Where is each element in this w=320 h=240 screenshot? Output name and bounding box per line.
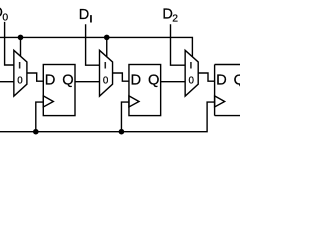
- label D1: [79, 7, 92, 23]
- svg-text:0: 0: [189, 75, 195, 86]
- svg-text:0: 0: [2, 12, 8, 23]
- wire: FF2 Q output to mux M3 "0" input: [161, 81, 185, 83]
- label: mux M2 input 1: [105, 62, 107, 69]
- wire: clock tap to FF1: [36, 102, 44, 132]
- wire: select drop to mux M1: [20, 37, 22, 56]
- wire: D1 input drop to mux M2 "1" input: [86, 24, 100, 65]
- wire: serial input Sin to mux M1 "0" input: [0, 81, 14, 83]
- node: select junction at M2: [104, 35, 110, 41]
- flip-flop FF1 clock triangle: [43, 96, 53, 107]
- svg-text:D: D: [45, 72, 56, 88]
- flip-flop FF2 box: [129, 65, 161, 116]
- wire: D0 input drop to mux M1 "1" input: [5, 22, 14, 65]
- svg-text:2: 2: [172, 14, 178, 25]
- wire: mux M1 output to FF1 D input: [27, 73, 43, 81]
- svg-text:Q: Q: [148, 72, 159, 88]
- wire: clock tap to FF2: [121, 102, 129, 132]
- wire: FF1 Q output to mux M2 "0" input: [75, 81, 99, 83]
- node: clock junction at FF1: [33, 129, 39, 135]
- svg-text:Q: Q: [234, 72, 240, 88]
- flip-flop FF3 box: [215, 64, 240, 66]
- label: mux M1 input 1: [19, 62, 21, 69]
- multiplexer M2: [100, 50, 113, 96]
- svg-text:D: D: [216, 72, 227, 88]
- flip-flop FF2 clock triangle: [129, 96, 139, 107]
- flip-flop FF1 box: [43, 65, 75, 116]
- label D2: [162, 6, 178, 24]
- wire: clock rail (bottom): [0, 102, 215, 132]
- svg-text:0: 0: [103, 75, 109, 86]
- wire: mux M3 output to FF3 D input: [198, 73, 214, 81]
- svg-text:Q: Q: [62, 72, 73, 88]
- svg-text:D: D: [130, 72, 141, 88]
- flip-flop FF3 clock triangle: [215, 96, 225, 107]
- node: select junction at M1: [18, 35, 24, 41]
- wire: Load select rail (top): [0, 37, 192, 56]
- multiplexer M3: [185, 50, 198, 96]
- label D0: [0, 5, 8, 23]
- wire: select drop to mux M2: [106, 37, 108, 56]
- multiplexer M1: [14, 50, 27, 96]
- label: mux M3 input 1: [190, 62, 192, 69]
- wire: mux M2 output to FF2 D input: [113, 73, 129, 81]
- svg-text:D: D: [79, 7, 89, 23]
- svg-text:0: 0: [17, 75, 23, 86]
- node: clock junction at FF2: [119, 129, 125, 135]
- wire: D2 input drop to mux M3 "1" input: [171, 24, 186, 65]
